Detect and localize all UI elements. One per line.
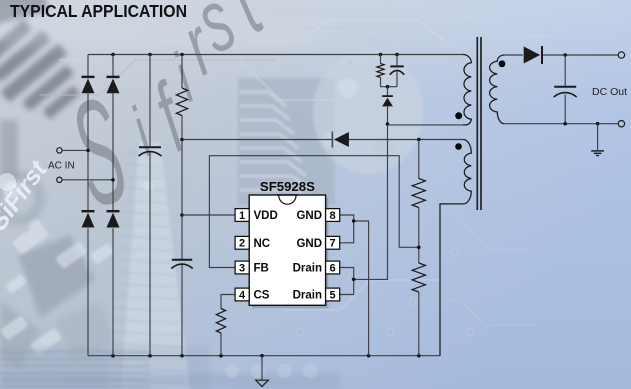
node Drain tap: [352, 278, 356, 282]
svg-text:SF5928S: SF5928S: [260, 179, 315, 194]
node output ground tap: [596, 122, 600, 126]
terminal DC out +: [618, 52, 624, 58]
svg-text:Drain: Drain: [293, 263, 322, 275]
wire FB divider column: [418, 140, 420, 356]
transformer T1 secondary winding: [490, 55, 505, 124]
node VDD/pin1 wire: [180, 213, 184, 217]
wire snubber to clamp diode: [387, 87, 389, 124]
svg-text:DC Out: DC Out: [592, 86, 627, 98]
pin 3 box: [235, 261, 249, 274]
wire snubber R branch: [381, 55, 398, 87]
transformer core: [477, 37, 481, 210]
node FB divider mid: [417, 246, 421, 250]
terminal AC neutral: [57, 177, 62, 182]
svg-text:Drain: Drain: [293, 290, 322, 302]
wire rail to ground symbol: [261, 356, 263, 381]
terminal AC line: [57, 148, 62, 153]
svg-text:6: 6: [330, 262, 336, 274]
diode D6 clamp: [382, 96, 393, 106]
node AC line / bridge: [86, 149, 90, 153]
node secondary polarity dot: [499, 60, 506, 67]
node output cap bottom: [563, 122, 567, 126]
svg-text:5: 5: [330, 289, 336, 301]
svg-text:8: 8: [330, 210, 336, 222]
wire AC line to bridge: [62, 149, 88, 151]
wire aux to VDD: [182, 139, 463, 141]
capacitor C3 snubber: [390, 66, 405, 74]
wire bridge right column: [112, 55, 114, 356]
svg-text:VDD: VDD: [254, 210, 278, 222]
ground primary: [256, 380, 269, 386]
wire AC neutral to bridge: [62, 179, 113, 181]
wire output cap column: [564, 55, 566, 124]
transformer T1 primary winding: [463, 55, 471, 125]
svg-text:GND: GND: [296, 210, 322, 222]
node primary polarity dot: [455, 112, 462, 119]
diode D7 output rectifier: [524, 46, 542, 64]
wire VDD column: [181, 55, 183, 356]
resistor R3b FB divider lower: [412, 263, 425, 292]
node snubber R top: [379, 53, 383, 57]
node output cap top: [563, 53, 567, 57]
node drain / primary: [386, 122, 390, 126]
svg-text:7: 7: [330, 238, 336, 250]
capacitor C4 output: [554, 87, 577, 97]
svg-text:NC: NC: [254, 238, 271, 250]
svg-text:FB: FB: [254, 263, 269, 275]
node aux polarity dot: [455, 143, 462, 150]
pin 8 box: [326, 209, 340, 222]
wire GND pins 8-7 link: [340, 215, 354, 243]
wire bottom rail: [88, 355, 440, 357]
wire CS to sense resistor: [221, 295, 235, 356]
node aux / divider top: [417, 138, 421, 142]
node snubber bottom: [386, 85, 390, 89]
pin 2 box: [235, 236, 249, 249]
wire Drain pins 6-5 link: [340, 268, 354, 295]
wire snubber C branch: [396, 55, 398, 87]
svg-text:4: 4: [239, 289, 246, 301]
resistor R2 snubber: [377, 64, 384, 78]
diode D4 bridge bottom-right: [107, 211, 120, 227]
svg-text:AC IN: AC IN: [48, 161, 75, 172]
resistor R3a FB divider upper: [412, 179, 425, 208]
node GND tap: [352, 219, 356, 223]
terminal DC out -: [618, 121, 624, 127]
capacitor C1 bulk: [139, 147, 162, 156]
svg-text:2: 2: [239, 238, 245, 250]
diode D2 bridge top-right: [107, 77, 120, 93]
wire Drain to primary: [354, 124, 388, 279]
pin 7 box: [326, 236, 340, 249]
wire drain node to primary: [388, 124, 464, 126]
svg-text:3: 3: [239, 262, 245, 274]
wire bulk cap column: [149, 55, 151, 356]
wire bridge left column: [87, 55, 89, 356]
svg-text:1: 1: [239, 210, 245, 222]
diode D3 bridge bottom-left: [82, 211, 95, 227]
wire secondary bottom: [504, 123, 618, 125]
transformer T1 auxiliary winding: [440, 140, 471, 356]
diode D1 bridge top-left: [82, 77, 95, 93]
pin 1 box: [235, 209, 249, 222]
node AC neutral / bridge: [111, 178, 115, 182]
svg-text:TYPICAL APPLICATION: TYPICAL APPLICATION: [10, 1, 187, 21]
wire VDD to pin 1: [182, 214, 235, 216]
wire top rail: [88, 54, 463, 56]
pin 6 box: [326, 261, 340, 274]
pin 5 box: [326, 288, 340, 301]
pin 4 box: [235, 288, 249, 301]
IC U1 SF5928S body: [249, 195, 328, 308]
wire FB loop: [209, 156, 418, 268]
wire to output ground: [597, 124, 599, 150]
resistor R1 startup: [176, 88, 187, 116]
svg-text:GND: GND: [296, 238, 322, 250]
diode D5 VDD rectifier: [332, 132, 349, 148]
node snubber C top: [395, 53, 399, 57]
wire GND to bottom rail: [354, 221, 369, 356]
node VDD/aux wire: [180, 138, 184, 142]
svg-text:CS: CS: [254, 290, 270, 302]
capacitor C2 VDD: [171, 260, 193, 269]
wire secondary top: [504, 54, 618, 56]
ground secondary: [591, 151, 604, 156]
resistor R4 current sense: [216, 309, 225, 334]
